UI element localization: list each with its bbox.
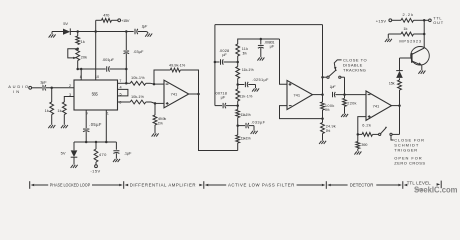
svg-text:11k-1%: 11k-1% (241, 137, 252, 141)
terminal TTL OUT (429, 19, 432, 22)
capacitor C9 .00718uF (215, 105, 222, 107)
svg-text:3µF: 3µF (40, 80, 47, 85)
node (236, 61, 239, 64)
svg-text:6.2k: 6.2k (362, 123, 371, 128)
capacitor C12 .00801uF (260, 39, 262, 44)
ground (147, 32, 149, 34)
svg-text:TRIGGER: TRIGGER (394, 148, 417, 153)
svg-text:470: 470 (103, 13, 110, 18)
wire (138, 31, 147, 33)
svg-text:7: 7 (119, 79, 121, 83)
node op1 output (197, 93, 200, 96)
wire node A vertical (214, 25, 216, 106)
wire +input (358, 117, 366, 135)
node switch tap (321, 76, 324, 79)
wire (146, 82, 151, 84)
node (154, 102, 157, 105)
section label DETECTOR (327, 184, 331, 187)
svg-text:OUT: OUT (433, 20, 444, 25)
svg-text:.05µF: .05µF (89, 122, 102, 127)
ground (341, 114, 348, 117)
section label TTL LEVEL (404, 184, 408, 187)
ground (152, 133, 159, 136)
section label PHASE LOCKED LOOP (29, 181, 31, 189)
svg-text:+15V: +15V (121, 18, 130, 23)
wire ladder top (238, 39, 280, 44)
section label DIFFERENTIAL AMPLIFIER (125, 184, 129, 187)
svg-text:1µF: 1µF (142, 24, 148, 29)
wire pin7 row (118, 82, 131, 84)
capacitor C10 .0251uF (238, 84, 245, 86)
resistor R14 11k-1% (237, 106, 239, 110)
capacitor C5 3uF (42, 85, 44, 90)
svg-text:PHASE LOCKED LOOP: PHASE LOCKED LOOP (50, 183, 91, 188)
wire to op2 +input (280, 39, 288, 84)
ground (253, 126, 255, 131)
wire bottom rail (74, 141, 116, 143)
resistor R17 24.9k 1% (322, 119, 324, 123)
ground (48, 125, 55, 128)
node (214, 61, 217, 64)
switch S1 tracking disable (323, 76, 327, 78)
svg-text:1: 1 (107, 112, 109, 116)
node feedback join (153, 83, 156, 86)
node input bias (50, 87, 53, 90)
ground 1k return (385, 39, 392, 42)
svg-text:470: 470 (99, 152, 107, 157)
wire emitter to ground (421, 65, 423, 70)
svg-text:1µF: 1µF (330, 85, 336, 89)
resistor R8 10k-1% (130, 100, 146, 104)
svg-text:1%: 1% (242, 52, 247, 56)
op-amp U4 741 (366, 91, 392, 120)
svg-text:µF: µF (270, 44, 275, 49)
svg-text:1%: 1% (325, 108, 330, 112)
wire pin1 (105, 110, 107, 142)
node on pin7 line (125, 82, 128, 85)
wire (70, 31, 133, 33)
resistor R13 11k-1% (237, 85, 239, 90)
svg-text:SeekIC.com: SeekIC.com (414, 185, 458, 194)
node pin8 tap (80, 68, 83, 71)
wire op3 output (392, 105, 400, 107)
svg-text:DETECTOR: DETECTOR (350, 183, 374, 188)
svg-text:24.9k: 24.9k (326, 124, 336, 128)
wire pin10 riser (95, 20, 97, 31)
op-amp U3 741 (287, 80, 313, 109)
node op2 output (321, 93, 324, 96)
svg-text:741: 741 (293, 92, 300, 97)
capacitor C2 1uF (134, 29, 136, 34)
transistor Q1 MPS2923 (411, 47, 430, 66)
svg-text:6: 6 (119, 101, 121, 105)
svg-text:11k-1%: 11k-1% (242, 68, 255, 72)
resistor R4 1k (51, 88, 53, 102)
zener diode D1 5V (63, 29, 70, 35)
ground (319, 141, 326, 144)
ground (255, 85, 257, 89)
node (236, 104, 239, 107)
svg-text:10k-1%: 10k-1% (131, 75, 145, 80)
svg-text:2.2k: 2.2k (403, 12, 414, 17)
wire output (313, 94, 323, 96)
svg-text:220k: 220k (347, 100, 356, 105)
potentiometer R2 20k (76, 49, 80, 61)
wire (32, 87, 42, 89)
wire ladder return (199, 94, 238, 151)
svg-text:15k: 15k (389, 81, 395, 86)
terminal +15V (118, 19, 121, 22)
svg-text:.033µF: .033µF (251, 119, 266, 124)
capacitor C6 .05uF pin9 (85, 110, 87, 128)
node: decoupling junction (125, 30, 128, 33)
svg-text:.0251µF: .0251µF (252, 77, 269, 82)
resistor R20 6.2k (358, 133, 362, 135)
svg-text:.1µF: .1µF (124, 151, 132, 156)
svg-text:390: 390 (361, 142, 368, 147)
resistor R23 1k (401, 32, 414, 36)
terminal AUDIO IN (29, 86, 32, 89)
svg-text:5V: 5V (61, 150, 66, 155)
wire base (400, 57, 412, 59)
resistor R16 100k 1% (322, 95, 324, 102)
ground (257, 57, 264, 60)
svg-text:10: 10 (95, 75, 99, 79)
ground (71, 165, 78, 168)
svg-text:20k: 20k (81, 55, 87, 60)
svg-text:MPS2923: MPS2923 (399, 38, 421, 43)
resistor R10 49.9k-1% feedback (180, 70, 198, 94)
node (321, 117, 324, 120)
resistor R3 470 (96, 19, 102, 21)
svg-text:1k: 1k (403, 26, 407, 31)
svg-text:1k: 1k (45, 108, 49, 113)
resistor R21 15k (399, 90, 401, 106)
section label ACTIVE LOW PASS FILTER (205, 184, 209, 187)
op-amp U2 741 (164, 80, 189, 108)
svg-text:µF: µF (221, 95, 226, 100)
svg-text:8: 8 (80, 75, 82, 79)
resistor R19 390 (357, 134, 359, 141)
svg-text:565: 565 (92, 92, 99, 97)
node: wiper join (76, 47, 79, 50)
svg-text:IN: IN (13, 89, 19, 94)
svg-text:11k-1%: 11k-1% (241, 113, 252, 117)
IC U1 565 PLL (74, 80, 118, 110)
svg-text:49.9k-1%: 49.9k-1% (169, 62, 186, 67)
wire (146, 101, 151, 103)
svg-text:.001µF: .001µF (102, 57, 115, 62)
svg-text:5V: 5V (63, 21, 68, 26)
wire (335, 94, 366, 96)
switch S2 schmidt (379, 133, 381, 135)
ground (113, 159, 120, 162)
node (398, 104, 401, 107)
svg-text:.03µF: .03µF (133, 49, 144, 54)
svg-text:10k-1%: 10k-1% (131, 94, 145, 99)
svg-text:1k: 1k (81, 39, 85, 44)
resistor R22 2.2k (401, 18, 414, 22)
resistor R1 1k (77, 32, 79, 37)
svg-text:ZERO CROSS: ZERO CROSS (394, 161, 425, 166)
ground (354, 151, 361, 154)
capacitor C7 .1uF (115, 142, 117, 150)
svg-text:11k: 11k (242, 47, 248, 51)
wire pin6 row (118, 101, 131, 103)
resistor R12 11k-1% (237, 62, 239, 67)
node (125, 68, 128, 71)
pointer arrow (334, 60, 341, 68)
resistor R7 10k-1% (130, 81, 146, 85)
wire collector (423, 20, 425, 48)
capacitor C11 .033uF (238, 125, 245, 127)
svg-text:1k: 1k (57, 108, 61, 113)
wire top tracking line (215, 24, 323, 26)
resistor R15 11k-1% (237, 126, 239, 135)
svg-text:+15V: +15V (376, 19, 387, 24)
capacitor C4 .001uF (106, 66, 108, 71)
resistor R18 220k (344, 95, 346, 99)
resistor R5 1k pin3 (64, 97, 74, 103)
svg-text:µF: µF (222, 52, 227, 57)
svg-text:1%: 1% (326, 129, 331, 133)
svg-text:ACTIVE LOW PASS FILTER: ACTIVE LOW PASS FILTER (228, 183, 294, 188)
capacitor C3 .03uF (125, 32, 127, 51)
resistor R6 470 (95, 142, 97, 149)
terminal -15V (95, 165, 98, 168)
svg-text:741: 741 (373, 103, 380, 108)
pointer and label CLOSE FOR SCHMIDT TRIGGER (391, 136, 394, 140)
wire (52, 31, 63, 33)
wire VCO bias line (76, 68, 79, 71)
wire output (189, 93, 199, 95)
resistor R11 11k 1% (236, 44, 240, 56)
node .00801 tap (260, 38, 263, 41)
resistor R9 49.9k 1% (154, 103, 156, 115)
svg-text:11k-1%: 11k-1% (239, 94, 253, 98)
node (423, 33, 426, 36)
capacitor C8 .0028uF (215, 61, 220, 63)
node E (236, 124, 239, 127)
svg-text:TRACKING: TRACKING (343, 68, 366, 73)
node F (343, 93, 346, 96)
wire pin4-pin5 loop (118, 89, 128, 96)
node (357, 133, 360, 136)
svg-text:DIFFERENTIAL AMPLIFIER: DIFFERENTIAL AMPLIFIER (130, 183, 196, 188)
node C (236, 83, 239, 86)
capacitor C13 1uF (332, 92, 334, 97)
node: top of 1k bias divider (76, 30, 79, 33)
ground (input bias line) (51, 32, 53, 35)
node: +V rail junction (94, 30, 97, 33)
svg-text:-15V: -15V (90, 169, 100, 174)
diode D3 (399, 78, 401, 80)
wire -input feedback loop (280, 106, 323, 119)
zener diode D2 5V (73, 142, 75, 150)
ground (61, 125, 68, 128)
svg-text:1%: 1% (158, 121, 164, 126)
wire pin2 (46, 87, 74, 89)
svg-text:741: 741 (171, 92, 178, 97)
